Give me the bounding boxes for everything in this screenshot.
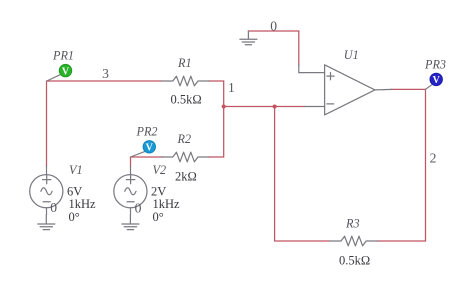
svg-text:R3: R3 xyxy=(345,216,360,230)
svg-text:1: 1 xyxy=(228,80,235,95)
svg-text:PR3: PR3 xyxy=(424,57,446,71)
resistor R2 xyxy=(162,152,209,162)
svg-text:PR1: PR1 xyxy=(52,48,74,62)
op-amp U1 xyxy=(299,65,392,115)
source V2 xyxy=(114,166,147,215)
wire feedback: junction down to R3 left xyxy=(275,107,330,242)
svg-text:V: V xyxy=(433,75,441,86)
wire net3: V1 top to R1 left xyxy=(47,81,162,166)
svg-text:1kHz: 1kHz xyxy=(69,197,97,211)
wire net1: junction to op-amp minus input xyxy=(224,106,305,108)
svg-text:R1: R1 xyxy=(177,56,192,70)
svg-text:0°: 0° xyxy=(153,210,164,224)
source V1 xyxy=(30,166,63,215)
probe PR2 xyxy=(131,141,156,157)
resistor R1 xyxy=(162,76,210,86)
ground at op-amp plus input xyxy=(240,31,257,45)
svg-text:V1: V1 xyxy=(69,163,83,177)
node junction dot 2 xyxy=(273,104,277,108)
svg-text:3: 3 xyxy=(102,66,109,81)
probe PR1 xyxy=(47,64,72,81)
svg-text:PR2: PR2 xyxy=(136,124,158,138)
svg-text:0°: 0° xyxy=(69,210,80,224)
wire net2: R3 right up to op-amp output xyxy=(377,89,425,241)
resistor R3 xyxy=(330,236,378,246)
svg-text:0.5kΩ: 0.5kΩ xyxy=(171,93,202,107)
svg-text:0: 0 xyxy=(135,201,142,216)
wire net1: R1 right down to R2 right xyxy=(209,81,224,157)
svg-text:0: 0 xyxy=(270,18,277,33)
svg-text:0.5kΩ: 0.5kΩ xyxy=(339,253,370,267)
ground below V2 xyxy=(122,215,139,230)
probe PR3 xyxy=(425,73,442,89)
svg-text:1kHz: 1kHz xyxy=(153,197,181,211)
svg-text:V: V xyxy=(62,66,70,77)
svg-text:2kΩ: 2kΩ xyxy=(175,170,197,184)
svg-text:U1: U1 xyxy=(344,48,359,62)
node junction dot 1 xyxy=(222,104,226,108)
svg-text:V2: V2 xyxy=(153,163,167,177)
svg-text:2: 2 xyxy=(430,151,437,166)
svg-text:R2: R2 xyxy=(177,132,192,146)
wire net0: ground to op-amp plus input xyxy=(248,31,298,65)
svg-text:V: V xyxy=(146,143,154,154)
wire net1: R2 left to V2 top xyxy=(131,157,163,166)
svg-text:0: 0 xyxy=(50,200,57,215)
ground below V1 xyxy=(38,215,55,230)
